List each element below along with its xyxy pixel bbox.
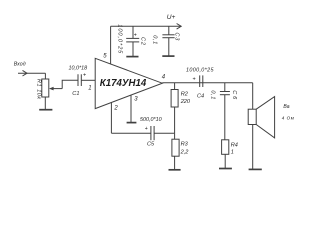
resistor R2 220 <box>174 83 176 90</box>
wire output corner down to speaker <box>252 83 254 109</box>
svg-text:500,0*10: 500,0*10 <box>140 117 162 123</box>
svg-text:C2: C2 <box>140 37 146 46</box>
pin 4 output wire <box>162 82 252 84</box>
loudspeaker Ва 4 Ом <box>248 109 256 124</box>
svg-text:2,2: 2,2 <box>180 150 190 156</box>
ground pin3 <box>127 122 137 124</box>
svg-text:+: + <box>145 126 148 132</box>
wire input arrow <box>18 72 45 74</box>
capacitor C4 1000,0*25 <box>199 75 201 87</box>
svg-text:4: 4 <box>162 74 166 80</box>
op-amp U1 К174УН14 triangle <box>95 58 162 108</box>
svg-text:+: + <box>193 77 196 83</box>
ground R3 <box>169 169 181 171</box>
ground R4 <box>219 168 232 170</box>
resistor R3 2,2 <box>174 133 176 139</box>
wire C1 to pin1 <box>81 79 95 81</box>
resistor R4 1 <box>222 140 229 155</box>
wire wiper jog to C1 <box>62 80 77 88</box>
svg-text:C3: C3 <box>174 32 180 41</box>
svg-text:R3: R3 <box>181 141 189 147</box>
ground C3 <box>162 55 174 57</box>
ground C2 <box>126 56 138 58</box>
svg-text:5: 5 <box>103 54 107 60</box>
svg-text:Вход: Вход <box>14 62 26 68</box>
pin 5 wire to rail <box>110 26 112 64</box>
wire R1 to ground <box>44 97 46 110</box>
wire supply rail <box>111 25 181 27</box>
svg-text:2: 2 <box>113 105 118 111</box>
svg-text:C1: C1 <box>72 91 79 97</box>
svg-text:U+: U+ <box>167 14 176 21</box>
svg-text:220: 220 <box>180 99 191 105</box>
svg-text:3: 3 <box>134 96 138 102</box>
svg-text:+: + <box>83 73 86 79</box>
svg-text:+: + <box>134 32 137 38</box>
svg-text:R2: R2 <box>181 92 189 98</box>
svg-text:C4: C4 <box>197 93 204 99</box>
svg-text:R1 10к: R1 10к <box>36 79 42 99</box>
capacitor C2 100,0*25 <box>132 26 134 38</box>
svg-text:0,1: 0,1 <box>210 90 216 99</box>
svg-text:100,0*25: 100,0*25 <box>117 24 123 54</box>
wire feedback pin2 to node A <box>111 132 150 134</box>
wiper arrow of R1 <box>53 88 62 90</box>
capacitor C6 0,1 <box>224 83 226 92</box>
svg-text:10,0*18: 10,0*18 <box>69 66 88 72</box>
wire input down to R1 <box>44 73 46 79</box>
svg-text:Ва: Ва <box>283 104 289 110</box>
capacitor C3 0,1 <box>168 26 170 34</box>
svg-text:C5: C5 <box>147 142 155 148</box>
pin 3 wire <box>130 95 132 122</box>
capacitor C1 10,0*18 <box>77 74 79 86</box>
svg-text:C6: C6 <box>231 90 237 100</box>
ground speaker <box>249 168 262 170</box>
ground R1 <box>39 109 52 111</box>
svg-text:К174УН14: К174УН14 <box>100 78 147 89</box>
capacitor C5 500,0*10 <box>150 126 152 140</box>
svg-text:1: 1 <box>88 86 91 92</box>
resistor R1 10k potentiometer <box>42 79 49 97</box>
svg-text:0,1: 0,1 <box>152 35 158 44</box>
pin 2 wire <box>110 102 112 133</box>
svg-text:1000,0*25: 1000,0*25 <box>186 67 215 73</box>
svg-text:4 Ом: 4 Ом <box>282 116 294 121</box>
svg-text:1: 1 <box>231 150 234 156</box>
svg-text:R4: R4 <box>231 143 238 149</box>
